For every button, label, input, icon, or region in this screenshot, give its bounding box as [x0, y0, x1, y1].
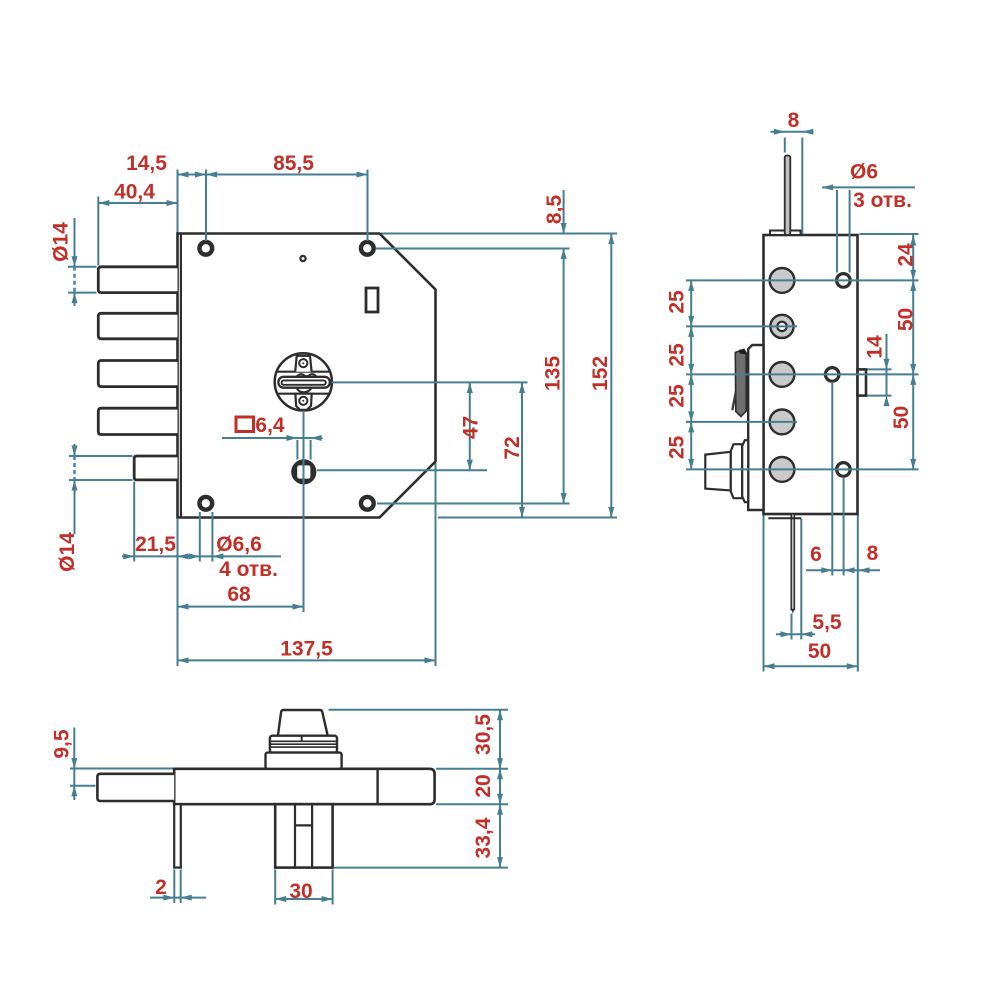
bottom body: [174, 769, 434, 804]
arrow 6 right: [844, 567, 855, 573]
svg-text:6: 6: [810, 543, 822, 566]
dim line 6,4: [222, 437, 323, 439]
bottom housing inner cross: [295, 824, 312, 826]
svg-text:Ø6: Ø6: [850, 161, 878, 184]
arrow 30 right: [322, 896, 333, 902]
arrow 135 bottom: [561, 493, 567, 504]
arrow 8 rod right: [802, 129, 813, 135]
arrow 24 bottom: [910, 270, 916, 281]
svg-text:135: 135: [542, 356, 565, 391]
svg-text:14,5: 14,5: [126, 152, 167, 175]
side: dim line 8: [771, 131, 814, 133]
arrows 25 r4: [688, 411, 694, 422]
keyhole screw top: [299, 359, 307, 367]
side top rod: [785, 156, 791, 236]
bottom: ext body top left: [70, 768, 173, 770]
arrow 6,4 right: [311, 435, 322, 441]
svg-text:9,5: 9,5: [51, 729, 74, 759]
arrows 25 r3: [688, 364, 694, 375]
dim line 137,5: [178, 659, 436, 661]
ext body left edge up: [177, 170, 179, 234]
front screw hole bottom-left: [199, 497, 212, 510]
arrow 14,5 left: [178, 172, 189, 178]
side row ext line 4: [686, 421, 797, 423]
arrow o14 top upper: [72, 256, 78, 267]
bottom: dim column 30,5/20/33,4: [499, 710, 501, 868]
side: dim column 25s: [690, 280, 692, 469]
svg-text:25: 25: [666, 384, 689, 408]
arrow 9,5 bottom: [71, 786, 77, 797]
svg-text:2: 2: [155, 876, 167, 899]
bottom housing inner left: [294, 804, 296, 867]
bottom: ext housing bottom right: [334, 867, 508, 869]
arrow 30,5 bottom: [497, 758, 503, 769]
arrow 40,4 right: [167, 200, 178, 206]
svg-text:5,5: 5,5: [812, 611, 842, 634]
arrow 30,5 top: [497, 710, 503, 721]
keyway top profile wave: [297, 374, 317, 377]
side washer circle inner: [777, 322, 786, 331]
arrow 68 left: [178, 604, 189, 610]
side: ext hole1 left edge: [836, 190, 838, 273]
side bottom rod: [791, 514, 794, 610]
arrow 6,4 left: [286, 435, 297, 441]
svg-text:14: 14: [864, 335, 887, 359]
svg-text:50: 50: [808, 640, 831, 663]
svg-text:3 отв.: 3 отв.: [853, 189, 912, 212]
arrow 25 r1: [688, 280, 694, 291]
svg-text:8: 8: [867, 542, 879, 565]
side row ext line 3: [686, 373, 919, 375]
ext body top right: [381, 233, 617, 235]
side screw hole mid: [825, 368, 839, 382]
dim stub o14 top lower: [74, 293, 76, 306]
arrow 9,5 top: [71, 758, 77, 769]
keyhole bottom tab: [295, 394, 311, 410]
ext latch bottom left: [69, 479, 133, 481]
side: dim column 24/50/50: [912, 235, 914, 469]
dim stub o14 latch upper: [74, 444, 76, 456]
arrow 8,5 bottom / 135 top: [561, 249, 567, 260]
svg-text:24: 24: [895, 243, 918, 267]
bottom: dim line 30: [275, 898, 332, 900]
ext spindle right: [310, 440, 312, 460]
arrow 21,5 left: [123, 553, 134, 559]
arrow 6 left: [821, 567, 832, 573]
ext latch left down: [133, 482, 135, 562]
arrow o6 leader: [822, 184, 833, 190]
front bolt 1: [98, 267, 177, 293]
bottom knob ring line 1: [271, 740, 337, 742]
side snib lever: [735, 349, 746, 416]
bottom: ext housing left down: [274, 870, 276, 905]
arrow 40,4 left: [98, 200, 109, 206]
arrow 137,5 right: [425, 657, 436, 663]
ext body right down: [435, 463, 437, 666]
svg-text:33,4: 33,4: [472, 817, 495, 858]
front slot: [366, 288, 378, 312]
arrow 47 bottom: [467, 460, 473, 471]
keyway bottom profile dip: [297, 388, 312, 393]
keyhole chord bottom: [277, 393, 329, 395]
bottom body divider: [376, 769, 378, 804]
side: dim line o6: [822, 186, 915, 188]
side: ext plate line long: [801, 138, 803, 234]
arrow 24 top: [910, 235, 916, 246]
arrow 85,5 left: [206, 172, 217, 178]
arrow 8 rod left: [774, 129, 785, 135]
svg-text:85,5: 85,5: [273, 152, 314, 175]
front screw hole top-right: [361, 242, 374, 255]
svg-text:25: 25: [666, 436, 689, 460]
bottom knob tick: [301, 736, 303, 742]
arrow 72 bottom: [519, 507, 525, 518]
arrow 47 top: [467, 382, 473, 393]
ext top-left hole up: [205, 170, 207, 242]
side: ext rod bottom down: [791, 614, 793, 640]
side body box: [764, 235, 858, 514]
side knob frustum mid: [731, 444, 742, 498]
ext body bottom right: [438, 517, 617, 519]
front screw hole top-left: [199, 242, 212, 255]
bottom bolt: [97, 774, 174, 801]
dim line 40,4: [98, 202, 177, 204]
side: ext hole bottom down: [843, 478, 845, 576]
svg-text:8: 8: [788, 109, 800, 132]
side bolt circle 1: [770, 268, 795, 293]
keyhole escutcheon circle: [275, 353, 332, 410]
svg-text:40,4: 40,4: [114, 181, 155, 204]
arrows 25 r2: [688, 316, 694, 327]
arrow 50b right: [847, 663, 858, 669]
ext top-right hole up: [367, 170, 369, 242]
arrow 8 bottom: [859, 567, 870, 573]
arrow 30 left: [275, 896, 286, 902]
svg-text:Ø14: Ø14: [56, 532, 79, 572]
dim dash o14 top: [73, 267, 76, 293]
ext latch top left: [69, 455, 133, 457]
svg-text:4 отв.: 4 отв.: [219, 558, 278, 581]
front body plate: [178, 234, 436, 518]
svg-text:50: 50: [895, 308, 918, 331]
arrow 50b left: [764, 663, 775, 669]
dim dash o14 latch: [73, 456, 76, 480]
side bolt circle 5: [770, 457, 795, 482]
arrow 50l bottom: [910, 459, 916, 470]
svg-text:30: 30: [289, 880, 312, 903]
arrow o14 top lower: [72, 293, 78, 304]
arrow 20 top: [497, 769, 503, 780]
ext bolt1 left up: [97, 197, 99, 266]
dim line 68: [178, 606, 304, 608]
keyway inner slot: [282, 380, 326, 384]
side knob frustum outer: [705, 452, 731, 491]
svg-text:50: 50: [890, 406, 913, 429]
keyhole chord top: [277, 371, 330, 373]
svg-text:30,5: 30,5: [472, 714, 495, 755]
side bolt circle 3: [770, 362, 795, 387]
side bottom step: [768, 517, 801, 519]
ext spindle left: [296, 440, 298, 460]
side row ext line 5: [686, 468, 919, 470]
side snib spike: [731, 391, 737, 411]
arrow 33,4 bottom: [497, 857, 503, 868]
bottom: ext housing right down: [332, 870, 334, 905]
side bottom rod tip: [791, 610, 794, 614]
arrow 2 right: [181, 895, 192, 901]
label square 6,4 symbol: [236, 417, 254, 432]
side snib cap: [739, 349, 746, 354]
arrow 5,5 right: [801, 631, 812, 637]
side right tab: [858, 369, 867, 395]
side: dim line 6/8: [806, 569, 880, 571]
side: ext body left down: [763, 515, 765, 672]
svg-text:25: 25: [666, 290, 689, 314]
dim stub 8,5: [563, 190, 565, 234]
keyhole screw bottom: [299, 397, 307, 405]
spindle ring: [291, 459, 316, 484]
svg-text:6,4: 6,4: [255, 414, 285, 437]
svg-text:152: 152: [589, 356, 612, 391]
svg-text:8,5: 8,5: [543, 195, 566, 225]
bottom knob ring line 3: [271, 746, 337, 748]
svg-text:21,5: 21,5: [135, 533, 176, 556]
side: dim line 5,5: [776, 633, 815, 635]
bottom: ext bolt axis left: [70, 785, 96, 787]
front small hole: [300, 256, 305, 261]
bottom: ext knob top right: [329, 709, 509, 711]
front bolt 2: [98, 313, 177, 339]
dim line 72: [521, 382, 523, 517]
ext body left long down: [177, 519, 179, 666]
svg-text:Ø14: Ø14: [50, 222, 73, 262]
arrow o6,6 right: [212, 553, 223, 559]
dim stub o14 top upper: [74, 218, 76, 267]
ext keyhole center right: [332, 381, 528, 383]
arrow 14 top: [884, 359, 890, 370]
ext spindle center right: [317, 469, 487, 471]
arrow 68 right: [293, 604, 304, 610]
arrow 21,5 right: [178, 553, 189, 559]
arrow 2 left: [163, 895, 174, 901]
arrow 152 top: [608, 234, 614, 245]
side bolt circle 4: [770, 410, 795, 435]
arrow 152 bottom: [608, 507, 614, 518]
side knob frustum inner: [742, 440, 748, 502]
bottom: ext body bottom right: [436, 803, 508, 805]
bottom: ext body top right: [436, 768, 508, 770]
bottom faceplate strip: [174, 804, 181, 867]
ext bolt1 bottom left: [68, 292, 97, 294]
arrow 50u bottom: [910, 364, 916, 375]
dim line 47: [469, 382, 471, 470]
arrow 8,5 top: [561, 223, 567, 234]
bottom: ext strip left down: [173, 870, 175, 904]
svg-text:68: 68: [227, 583, 251, 606]
arrow 85,5 right: [357, 172, 368, 178]
side row ext line 1: [686, 279, 919, 281]
arrow 25 r5: [688, 459, 694, 470]
bottom spindle housing: [275, 804, 332, 867]
side: ext body top right: [860, 233, 919, 235]
arrow o6,6 left: [189, 553, 200, 559]
side row ext line 2: [686, 325, 797, 327]
dim line 152: [610, 234, 612, 518]
arrow 14 bottom: [884, 396, 890, 407]
ext hole bottom-right right: [377, 503, 570, 505]
side screw hole bottom: [837, 463, 851, 477]
side faceplate: [748, 345, 763, 510]
dim line 21,5 and o6,6 shared: [122, 555, 281, 557]
side screw hole top: [837, 274, 851, 288]
front screw hole bottom-right: [361, 497, 374, 510]
side: dim line 50 bottom: [764, 665, 858, 667]
side: ext step down: [800, 519, 802, 640]
keyway outer slot: [278, 377, 329, 388]
bottom knob base: [266, 753, 342, 769]
side: ext tab top: [859, 368, 892, 370]
arrow 20 bottom: [497, 794, 503, 805]
side: ext hole1 right edge: [849, 190, 851, 273]
ext hole right edge down: [211, 512, 213, 562]
side: ext rod left: [784, 138, 786, 153]
svg-text:47: 47: [460, 416, 483, 439]
front bolt 3: [98, 361, 177, 387]
svg-text:25: 25: [666, 343, 689, 367]
dim stub o14 latch lower: [74, 480, 76, 534]
svg-text:137,5: 137,5: [280, 638, 333, 661]
svg-text:Ø6,6: Ø6,6: [216, 533, 262, 556]
bottom knob mid disc: [270, 736, 337, 753]
arrow o14 latch lower: [72, 480, 78, 491]
side washer circle outer: [770, 315, 793, 338]
ext hole top-right right: [376, 248, 570, 250]
bottom knob cap: [278, 710, 328, 736]
arrow 5,5 left: [780, 631, 791, 637]
spindle square hole: [297, 465, 310, 478]
side: ext body right down: [857, 515, 859, 672]
arrow 50u top: [910, 280, 916, 291]
bottom housing inner right: [311, 804, 313, 867]
arrow 72 top: [519, 382, 525, 393]
ext keyhole center vertical: [303, 411, 305, 613]
keyhole top tab: [295, 356, 311, 372]
bottom: dim line 2: [150, 897, 206, 899]
arrow 50l top: [910, 374, 916, 385]
dim line 14,5/85,5 top: [178, 174, 368, 176]
side: ext hole mid down: [831, 383, 833, 576]
arrow 33,4 top: [497, 804, 503, 815]
ext bolt1 top left: [68, 266, 97, 268]
svg-text:72: 72: [501, 436, 524, 459]
bottom: ext strip right down: [180, 870, 182, 904]
side: ext tab bottom: [859, 395, 892, 397]
bottom knob ring line 2: [271, 743, 337, 745]
side top lip: [770, 231, 801, 236]
svg-text:20: 20: [472, 774, 495, 797]
front bolt 4: [98, 408, 177, 434]
ext hole left edge down: [199, 512, 201, 562]
arrow 137,5 left: [178, 657, 189, 663]
side: dim line 14: [886, 334, 888, 396]
arrow o14 latch upper: [72, 446, 78, 457]
front latch bolt: [134, 456, 177, 480]
arrow 14,5 right: [195, 172, 206, 178]
dim line 135: [563, 249, 565, 504]
front faceplate inner edge: [180, 235, 182, 517]
bottom: dim line 9,5: [73, 728, 75, 801]
